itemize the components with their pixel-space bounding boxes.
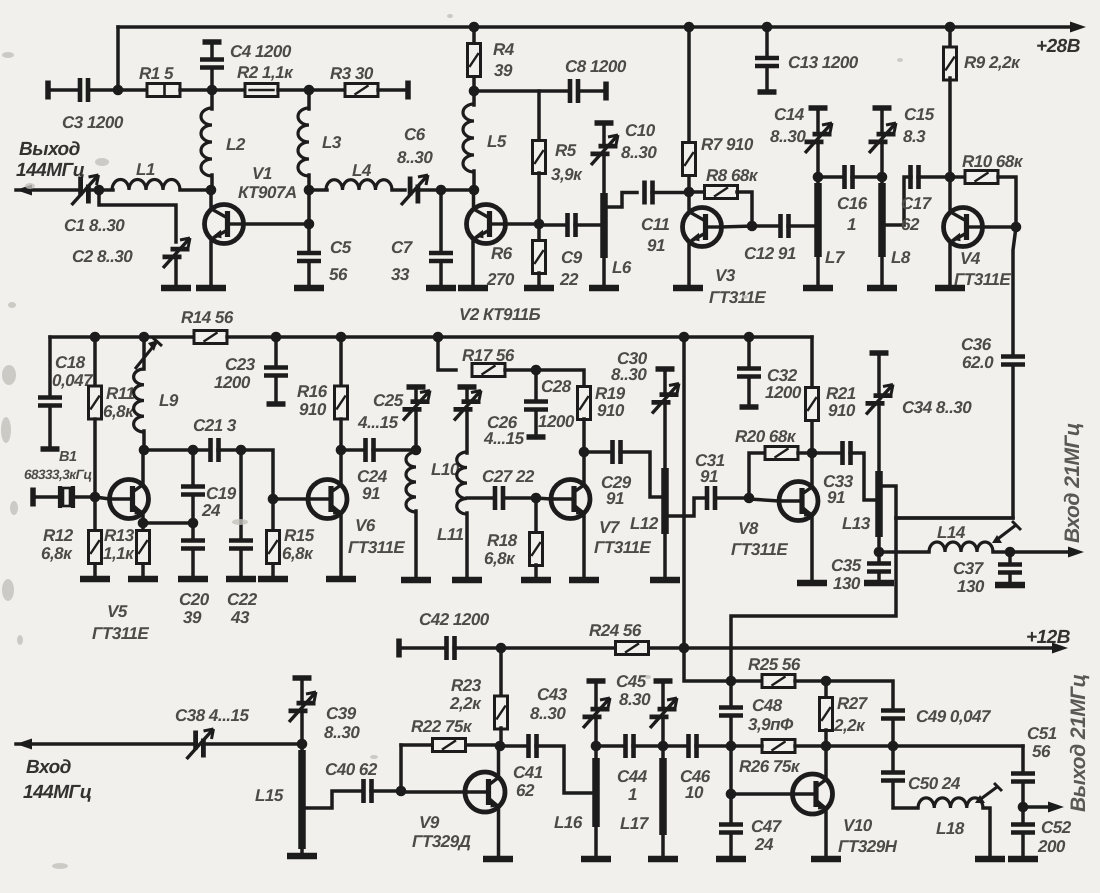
wire mid supply rail left bbox=[50, 335, 194, 339]
ground bbox=[811, 856, 841, 863]
node V6 collector/R16/C24 bbox=[336, 445, 347, 456]
wire L7 top bbox=[816, 177, 820, 184]
trimmer capacitor C45 8..30 bbox=[650, 698, 678, 728]
wire C11 to V3 base node bbox=[652, 191, 689, 195]
svg-text:Вход 21МГц: Вход 21МГц bbox=[1061, 423, 1084, 543]
label +12В bbox=[1026, 627, 1071, 648]
label V5 ГТ311Е bbox=[92, 602, 149, 643]
wire V7 base lead bbox=[536, 498, 551, 499]
wire V10 collector up bbox=[824, 746, 828, 779]
node C3/R1/rail bbox=[113, 85, 124, 96]
capacitor C32 1200 bbox=[737, 369, 761, 377]
L18 adjustment arrow bbox=[975, 783, 1002, 803]
svg-text:C41: C41 bbox=[513, 763, 543, 782]
capacitor C5 56 bbox=[297, 253, 321, 261]
wire C26 stem bbox=[465, 387, 469, 398]
svg-text:C48: C48 bbox=[752, 696, 783, 715]
svg-text:22: 22 bbox=[559, 270, 579, 289]
label L3 bbox=[322, 133, 342, 152]
node +12V/long vertical bbox=[679, 643, 690, 654]
label V10 ГТ329Н bbox=[838, 816, 898, 856]
wire V9 emitter down bbox=[497, 810, 501, 858]
inductor L9 bbox=[134, 369, 144, 432]
svg-text:C27 22: C27 22 bbox=[482, 467, 535, 486]
svg-text:R5: R5 bbox=[555, 141, 577, 160]
wire C34 stem bbox=[877, 353, 881, 392]
wire C6 to C7 node bbox=[418, 188, 441, 192]
label C25 4...15 bbox=[357, 391, 404, 432]
svg-text:1200: 1200 bbox=[538, 412, 575, 431]
wire C2 branch bbox=[99, 190, 176, 242]
label C18 0,047 bbox=[52, 353, 94, 390]
label R21 910 bbox=[826, 384, 856, 420]
svg-text:10: 10 bbox=[685, 783, 704, 802]
wire R4 to L5 node bbox=[472, 77, 476, 91]
capacitor C19 24 bbox=[181, 487, 205, 495]
wire L13 tap bracket to mixer bbox=[731, 486, 896, 681]
wire V3 collector bbox=[721, 226, 752, 227]
inductor L12 (ferrite line) bbox=[661, 468, 669, 534]
svg-text:R9 2,2к: R9 2,2к bbox=[964, 53, 1021, 72]
node V4 collector/R10/C36 bbox=[1011, 222, 1022, 233]
svg-text:R20 68к: R20 68к bbox=[735, 427, 797, 446]
wire V6 emitter down bbox=[339, 514, 343, 579]
svg-text:R11: R11 bbox=[106, 384, 134, 403]
svg-text:2,2к: 2,2к bbox=[449, 694, 482, 713]
svg-text:C8 1200: C8 1200 bbox=[565, 57, 627, 76]
wire R21 to node bbox=[810, 421, 814, 453]
wire C47 stem bbox=[729, 794, 733, 822]
resistor R13 1,1к bbox=[137, 531, 150, 564]
capacitor C17 62 bbox=[911, 165, 919, 189]
ground bbox=[1008, 856, 1038, 863]
capacitor C32 bottom bar bbox=[740, 404, 759, 410]
wire C35 stem bbox=[877, 552, 881, 562]
resistor R3 30 bbox=[345, 84, 378, 97]
wire R15 top bbox=[271, 499, 275, 530]
svg-text:4...15: 4...15 bbox=[483, 429, 525, 448]
wire R10 left bbox=[950, 175, 965, 179]
svg-text:V1: V1 bbox=[252, 164, 272, 183]
label V3 ГТ311Е bbox=[709, 266, 766, 307]
svg-text:V3: V3 bbox=[715, 266, 736, 285]
svg-text:910: 910 bbox=[299, 400, 327, 419]
wire C34 to L13 bbox=[877, 406, 881, 471]
svg-text:C51: C51 bbox=[1027, 724, 1057, 743]
wire C32 stem bbox=[747, 337, 751, 366]
svg-text:R15: R15 bbox=[284, 526, 315, 545]
label R23 2,2к bbox=[449, 676, 482, 713]
svg-text:C9: C9 bbox=[561, 248, 583, 267]
wire V2 base stub bbox=[472, 190, 476, 207]
wire C7 to ground bbox=[439, 263, 443, 287]
wire C50 stem bbox=[891, 746, 895, 770]
svg-text:910: 910 bbox=[597, 401, 625, 420]
trimmer capacitor C6 8..30 bbox=[401, 175, 428, 205]
svg-text:В1: В1 bbox=[59, 449, 77, 465]
label V6 ГТ311Е bbox=[348, 516, 405, 557]
capacitor C21 3 bbox=[211, 438, 219, 462]
svg-text:910: 910 bbox=[828, 401, 856, 420]
trimmer capacitor C38 4...15 bbox=[187, 729, 214, 759]
label C47 24 bbox=[751, 817, 783, 854]
svg-text:R3 30: R3 30 bbox=[330, 64, 374, 83]
wire V3 base stub bbox=[687, 192, 691, 209]
label R20 68к bbox=[735, 427, 797, 446]
wire R8 left bbox=[689, 190, 705, 194]
wire C18 lower lead bbox=[48, 408, 52, 445]
svg-text:V9: V9 bbox=[419, 813, 440, 832]
svg-text:C20: C20 bbox=[179, 590, 210, 609]
capacitor C28 bottom bar bbox=[527, 434, 546, 440]
wire L14 to output node bbox=[993, 550, 1010, 554]
wire R13 to ground bbox=[141, 564, 145, 579]
wire C29 to L12 tap bbox=[620, 452, 661, 497]
capacitor C15 top bar bbox=[873, 105, 892, 111]
svg-text:C22: C22 bbox=[227, 590, 258, 609]
capacitor C4 1200 bbox=[200, 60, 224, 68]
trimmer capacitor C34 8..30 bbox=[866, 385, 894, 415]
wire rail to R16 bbox=[339, 337, 343, 386]
svg-text:C11: C11 bbox=[641, 215, 669, 234]
label R27 2,2к bbox=[833, 694, 869, 735]
node rail/C23 bbox=[271, 332, 282, 343]
svg-text:L4: L4 bbox=[352, 161, 372, 180]
node C45/L17/C46 bbox=[658, 741, 669, 752]
svg-text:1: 1 bbox=[628, 785, 637, 804]
svg-text:1: 1 bbox=[847, 215, 856, 234]
label R11 6,8к bbox=[103, 384, 135, 421]
label R3 30 bbox=[330, 64, 374, 83]
ground bbox=[935, 285, 965, 292]
ground bbox=[426, 285, 456, 292]
inductor L7 (ferrite line) bbox=[814, 183, 822, 257]
wire V10 emitter down bbox=[824, 810, 828, 858]
ground bbox=[458, 285, 488, 292]
label C43 8..30 bbox=[530, 685, 568, 723]
svg-text:C49 0,047: C49 0,047 bbox=[916, 707, 992, 726]
wire L6 tap to C11 bbox=[606, 193, 637, 208]
ground bbox=[648, 856, 678, 863]
label C50 24 bbox=[908, 774, 961, 793]
capacitor C35 130 bbox=[867, 564, 891, 572]
svg-text:C15: C15 bbox=[904, 105, 935, 124]
wire L1 to V1 base node bbox=[180, 188, 211, 192]
ground bbox=[716, 856, 746, 863]
svg-text:ГТ329Н: ГТ329Н bbox=[838, 837, 898, 856]
svg-text:8..30: 8..30 bbox=[621, 143, 657, 162]
wire C16 right bbox=[852, 175, 882, 179]
label R4 39 bbox=[493, 40, 515, 80]
capacitor C49 0,047 bbox=[881, 711, 905, 719]
wire V5 emitter down bbox=[141, 514, 145, 523]
svg-text:R6: R6 bbox=[491, 244, 513, 263]
transistor V5 ГТ311Е bbox=[110, 480, 149, 519]
wire L2 bottom bbox=[210, 175, 214, 190]
svg-text:V7: V7 bbox=[599, 518, 621, 537]
wire C4 stem bbox=[210, 42, 214, 58]
label L10 bbox=[431, 460, 460, 479]
resistor R4 39 bbox=[468, 44, 481, 77]
label C17 62 bbox=[901, 194, 933, 234]
wire C42 left lead bbox=[399, 646, 446, 650]
node bracket/R25/C48 bbox=[726, 676, 737, 687]
wire R2 to R3 bbox=[278, 88, 345, 92]
wire C41 left bbox=[501, 744, 525, 748]
capacitor C23 bottom bar bbox=[267, 401, 286, 407]
capacitor C51 56 bbox=[1011, 774, 1035, 782]
svg-text:C17: C17 bbox=[901, 194, 933, 213]
wire rail to R11 bbox=[93, 337, 97, 386]
svg-text:3,9к: 3,9к bbox=[551, 165, 583, 184]
svg-text:+28В: +28В bbox=[1036, 36, 1081, 57]
wire node to L4 bbox=[309, 188, 327, 192]
wire C12 left bbox=[752, 224, 777, 228]
wire R6 top bbox=[537, 224, 541, 241]
svg-text:C36: C36 bbox=[961, 335, 992, 354]
label C36 62.0 bbox=[961, 335, 994, 372]
label C46 10 bbox=[680, 767, 711, 802]
wire L18 to ground bbox=[983, 808, 990, 858]
trimmer capacitor C25 4...15 bbox=[403, 391, 431, 421]
svg-text:V5: V5 bbox=[107, 602, 128, 621]
svg-text:1200: 1200 bbox=[214, 373, 251, 392]
svg-text:62: 62 bbox=[516, 781, 535, 800]
port arrow Выход 21МГц bbox=[1048, 802, 1064, 813]
ground bbox=[975, 856, 1005, 863]
label V9 ГТ329Д bbox=[412, 813, 471, 851]
wire R6 to ground bbox=[537, 273, 541, 287]
wire L3 top bbox=[307, 90, 311, 109]
svg-text:200: 200 bbox=[1037, 837, 1066, 856]
trimmer capacitor C1 8..30 bbox=[72, 175, 99, 205]
svg-text:ГТ311Е: ГТ311Е bbox=[731, 540, 788, 559]
node rail/C32 bbox=[744, 332, 755, 343]
rail +12V arrow bbox=[1052, 643, 1068, 654]
svg-text:C12 91: C12 91 bbox=[744, 244, 796, 263]
wire 21MHz output port bbox=[1023, 805, 1048, 809]
label Выход 21МГц bbox=[1067, 674, 1090, 812]
wire L9 bottom bbox=[142, 431, 146, 450]
node C48/C46/R26/V10 base line bbox=[726, 741, 737, 752]
label C15 8.3 bbox=[903, 105, 935, 146]
label C52 200 bbox=[1037, 818, 1072, 856]
svg-text:8..30: 8..30 bbox=[397, 148, 433, 167]
label C21 3 bbox=[193, 416, 237, 435]
svg-text:C50 24: C50 24 bbox=[908, 774, 961, 793]
svg-text:8.3: 8.3 bbox=[903, 127, 926, 146]
svg-text:24: 24 bbox=[201, 501, 221, 520]
paper smudges bbox=[1, 14, 903, 869]
wire C33 left bbox=[812, 451, 839, 455]
svg-text:C44: C44 bbox=[617, 767, 648, 786]
label R16 910 bbox=[297, 382, 328, 419]
transistor V1 КТ907А bbox=[205, 205, 244, 244]
wire V3 emitter to ground bbox=[687, 243, 691, 287]
wire L2 top bbox=[210, 90, 214, 109]
resistor R2 1,1к bbox=[245, 84, 278, 97]
wire long vertical to R25 line bbox=[684, 648, 727, 681]
node C1/L1/C2 bbox=[94, 185, 105, 196]
node rail/R7 bbox=[684, 22, 695, 33]
svg-text:R17 56: R17 56 bbox=[462, 346, 515, 365]
wire C14 to node bbox=[816, 144, 820, 177]
svg-text:39: 39 bbox=[494, 61, 513, 80]
wire L17 to ground bbox=[661, 835, 665, 858]
capacitor C11 91 bbox=[645, 181, 653, 205]
svg-text:C6: C6 bbox=[404, 125, 426, 144]
label C40 62 bbox=[325, 760, 378, 779]
trimmer capacitor C2 8..30 bbox=[163, 238, 191, 268]
wire C15 to node bbox=[880, 144, 884, 177]
svg-text:C2 8..30: C2 8..30 bbox=[72, 247, 133, 266]
node rail/R9 bbox=[945, 22, 956, 33]
capacitor C44 1 bbox=[626, 734, 634, 758]
resistor R18 6,8к bbox=[530, 533, 543, 566]
capacitor C48 3,9пФ bbox=[719, 708, 743, 716]
wire C36 lower lead to L13 tap line bbox=[896, 367, 1013, 518]
wire long vertical supply link bbox=[682, 337, 686, 648]
wire C35 to ground bbox=[877, 573, 881, 583]
ground bbox=[196, 285, 226, 292]
svg-text:L1: L1 bbox=[136, 160, 155, 179]
label C28 1200 bbox=[538, 377, 575, 431]
svg-text:130: 130 bbox=[957, 577, 985, 596]
transistor V3 ГТ311Е bbox=[683, 208, 722, 247]
label C44 1 bbox=[617, 767, 648, 804]
capacitor C25 top bar bbox=[407, 384, 426, 390]
wire V6 collector up bbox=[339, 450, 343, 484]
resistor R26 75к bbox=[762, 740, 795, 753]
svg-text:144МГц: 144МГц bbox=[23, 782, 92, 803]
capacitor C7 33 bbox=[429, 253, 453, 261]
wire R25 to R27 node bbox=[795, 679, 826, 683]
wire L3 bottom bbox=[307, 175, 311, 190]
label C4 1200 bbox=[230, 42, 292, 61]
node rail/R11 bbox=[90, 332, 101, 343]
wire rail corner to R21 bbox=[810, 337, 814, 387]
label R14 56 bbox=[181, 308, 234, 327]
wire R25 left bbox=[731, 679, 762, 683]
wire V2 emitter to ground bbox=[471, 240, 475, 287]
wire C51 upper bbox=[1021, 746, 1025, 771]
label L4 bbox=[352, 161, 372, 180]
label C10 8..30 bbox=[621, 121, 657, 162]
capacitor C16 1 bbox=[845, 165, 853, 189]
ground bbox=[995, 582, 1025, 589]
capacitor C12 91 bbox=[781, 214, 789, 238]
wire V5 emitter link bbox=[143, 521, 193, 525]
resistor R14 56 bbox=[194, 331, 227, 344]
wire output line bbox=[826, 744, 1023, 748]
svg-text:8..30: 8..30 bbox=[611, 365, 647, 384]
label C42 1200 bbox=[419, 610, 490, 629]
capacitor C43 top bar bbox=[587, 678, 606, 684]
svg-text:Вход: Вход bbox=[26, 757, 72, 778]
rail +28V arrow bbox=[1070, 22, 1086, 33]
svg-text:C14: C14 bbox=[774, 105, 805, 124]
svg-text:C40 62: C40 62 bbox=[325, 760, 378, 779]
svg-text:R23: R23 bbox=[451, 676, 482, 695]
node R1/R2/C4/L2 bbox=[207, 85, 218, 96]
resistor R10 68к bbox=[965, 171, 998, 184]
svg-text:C38 4...15: C38 4...15 bbox=[175, 706, 249, 725]
capacitor C9 22 bbox=[568, 213, 576, 237]
wire C19 lower bbox=[191, 497, 195, 523]
label R19 910 bbox=[595, 384, 626, 420]
wire V7 emitter down bbox=[582, 514, 586, 580]
inductor L2 bbox=[201, 108, 212, 176]
svg-text:C4 1200: C4 1200 bbox=[230, 42, 292, 61]
wire C36 upper lead bbox=[1013, 227, 1016, 353]
resistor R5 3,9к bbox=[533, 141, 546, 174]
wire C3 left lead bbox=[48, 88, 80, 92]
label C11 91 bbox=[641, 215, 669, 255]
svg-text:L16: L16 bbox=[554, 813, 583, 832]
wire C46 left bbox=[663, 744, 685, 748]
wire B1 left lead bbox=[33, 495, 57, 499]
wire C37 stem bbox=[1008, 552, 1012, 562]
svg-text:ГТ311Е: ГТ311Е bbox=[709, 288, 766, 307]
svg-text:4...15: 4...15 bbox=[357, 413, 399, 432]
label R15 6,8к bbox=[282, 526, 315, 563]
ground bbox=[650, 577, 680, 584]
svg-text:39: 39 bbox=[183, 608, 202, 627]
ground bbox=[452, 577, 482, 584]
crystal B1 terminal bar bbox=[30, 488, 36, 507]
capacitor C27 22 bbox=[495, 486, 503, 510]
wire rail to R17 line bbox=[438, 337, 456, 370]
label +28В bbox=[1036, 36, 1081, 57]
ground bbox=[803, 285, 833, 292]
wire V2 collector bbox=[505, 222, 539, 226]
wire C49 to output line bbox=[891, 721, 895, 746]
resistor R12 6,8к bbox=[89, 531, 102, 564]
node C21/C22 bbox=[236, 445, 247, 456]
resistor R19 910 bbox=[578, 387, 591, 420]
resistor R27 2,2к bbox=[820, 698, 833, 731]
ground bbox=[128, 576, 158, 583]
node V7 collector/R19/C29 bbox=[579, 447, 590, 458]
label C30 8..30 bbox=[611, 349, 648, 384]
svg-text:R25 56: R25 56 bbox=[748, 655, 801, 674]
node V2 collector/R5/R6/C9 bbox=[534, 219, 545, 230]
transistor V9 ГТ329Д bbox=[465, 772, 505, 812]
svg-text:R26 75к: R26 75к bbox=[739, 757, 801, 776]
node R2/R3/L3 bbox=[304, 85, 315, 96]
wire C24 left bbox=[341, 448, 362, 452]
wire L15 to ground bbox=[300, 849, 304, 855]
wire R27 top bbox=[824, 681, 828, 698]
wire L12 tap to C31 bbox=[668, 498, 704, 516]
wire C45 to L17 node bbox=[661, 719, 665, 746]
wire C7 stem bbox=[439, 190, 443, 251]
svg-text:V4: V4 bbox=[960, 249, 981, 268]
wire V1 collector bbox=[243, 222, 309, 226]
wire R12 to ground bbox=[93, 564, 97, 579]
wire L12 to ground bbox=[663, 534, 667, 580]
label C12 91 bbox=[744, 244, 796, 263]
label C35 130 bbox=[831, 556, 862, 593]
trimmer capacitor C39 8..30 bbox=[289, 692, 317, 722]
wire C12 to L7 tap bbox=[788, 224, 815, 228]
wire R23 top bbox=[499, 648, 503, 697]
wire V8 emitter down bbox=[810, 516, 814, 583]
label В1 68333,3кГц bbox=[24, 449, 92, 482]
wire V1 base stub bbox=[209, 190, 213, 208]
wire C52 to ground bbox=[1021, 835, 1025, 858]
L9 adjustment arrow bbox=[135, 337, 162, 369]
